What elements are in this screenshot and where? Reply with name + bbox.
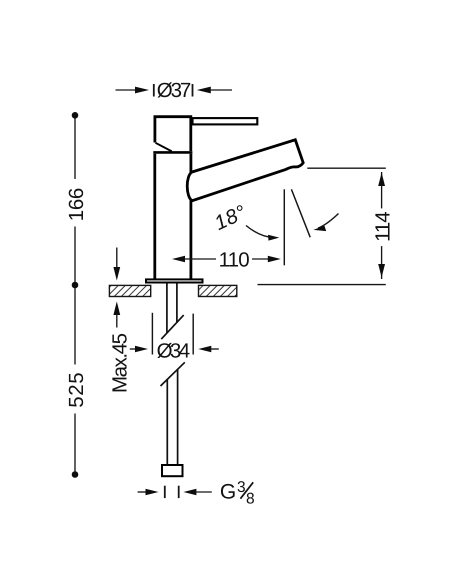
shank pipe upper left edge [166,284,168,334]
lower pipe break slash [161,362,185,386]
svg-text:Ø37: Ø37 [157,79,192,102]
dimension G3/8 right arrowhead [183,489,196,495]
dimension Max.45 up arrowhead [113,302,120,316]
upper pipe break slash [161,315,183,339]
faucet body column left edge [153,154,156,280]
dimension 114 upper line [381,172,383,208]
dimension 114 up arrowhead [378,173,385,187]
spout (angled, covers body edge) [187,140,303,201]
angle arc arrow right [318,214,339,229]
base plate (escutcheon) [146,279,203,282]
faucet cap (handle housing) [155,117,191,151]
dimension G3/8 right tick [178,486,180,498]
dimension Ø34 right tail [211,348,219,350]
countertop hatched section left [109,285,150,296]
handle lever bar [193,118,258,124]
svg-text:525: 525 [65,372,88,408]
dimension 114 lower line [381,246,383,279]
dimension Ø34 left extension line [151,313,153,355]
dimension Ø34 right extension line [192,314,194,355]
faucet body column right edge [189,154,192,280]
svg-text:8: 8 [246,491,255,508]
angle reference slanted line [291,189,310,237]
connector nut [162,465,183,476]
dimension chain dot bottom [72,471,79,478]
dimension Max.45 down arrowhead [113,267,120,281]
svg-text:G: G [220,481,236,504]
dimension chain dot top [72,112,79,119]
dimension 166/525 chain line segments [74,116,76,179]
supply pipe lower left edge [166,379,168,464]
supply pipe lower right edge [177,369,179,464]
dimension Ø37 left arrowhead [135,87,149,94]
dimension G3/8 left tick [164,486,166,498]
dimension 110 left arrowhead [172,256,185,262]
dimension Ø37 left tick [153,84,155,97]
dimension G3/8 left tail [138,491,147,493]
dimension Ø34 left tail [130,348,136,350]
dimension Ø37 line right tail [210,89,232,91]
svg-text:Ø34: Ø34 [157,340,191,363]
shank pipe upper right edge [176,284,178,323]
svg-text:Max.45: Max.45 [109,333,132,393]
dimension Ø34 left arrowhead [135,346,148,352]
dimension Ø34 right arrowhead [198,346,211,352]
svg-text:166: 166 [65,188,88,222]
dimension 110 left line [184,258,216,260]
dimension Ø37 right arrowhead [197,87,211,94]
dimension G3/8 left arrowhead [146,489,159,495]
countertop level extension line [258,284,386,286]
angle arc arrow left [246,226,274,238]
dimension Ø37 line left tail [116,89,137,91]
dimension G3/8 right tail [196,491,212,493]
dimension Max.45 lower line [116,314,118,328]
countertop hatched section right [199,285,237,296]
dimension Ø37 right tick [192,84,194,97]
handle tilt wedge line [156,143,172,152]
dimension 114 down arrowhead [378,264,385,278]
dimension 110 right line [252,258,269,260]
spout height extension line top [307,167,386,169]
svg-text:110: 110 [219,249,250,272]
svg-text:114: 114 [372,211,395,242]
cap/body joint line [153,151,192,154]
angle reference vertical line [283,189,285,265]
dimension Max.45 upper line [116,248,118,269]
dimension 110 right arrowhead [268,256,281,262]
thread label fraction slash [240,482,253,498]
dimension chain dot middle [72,282,79,289]
